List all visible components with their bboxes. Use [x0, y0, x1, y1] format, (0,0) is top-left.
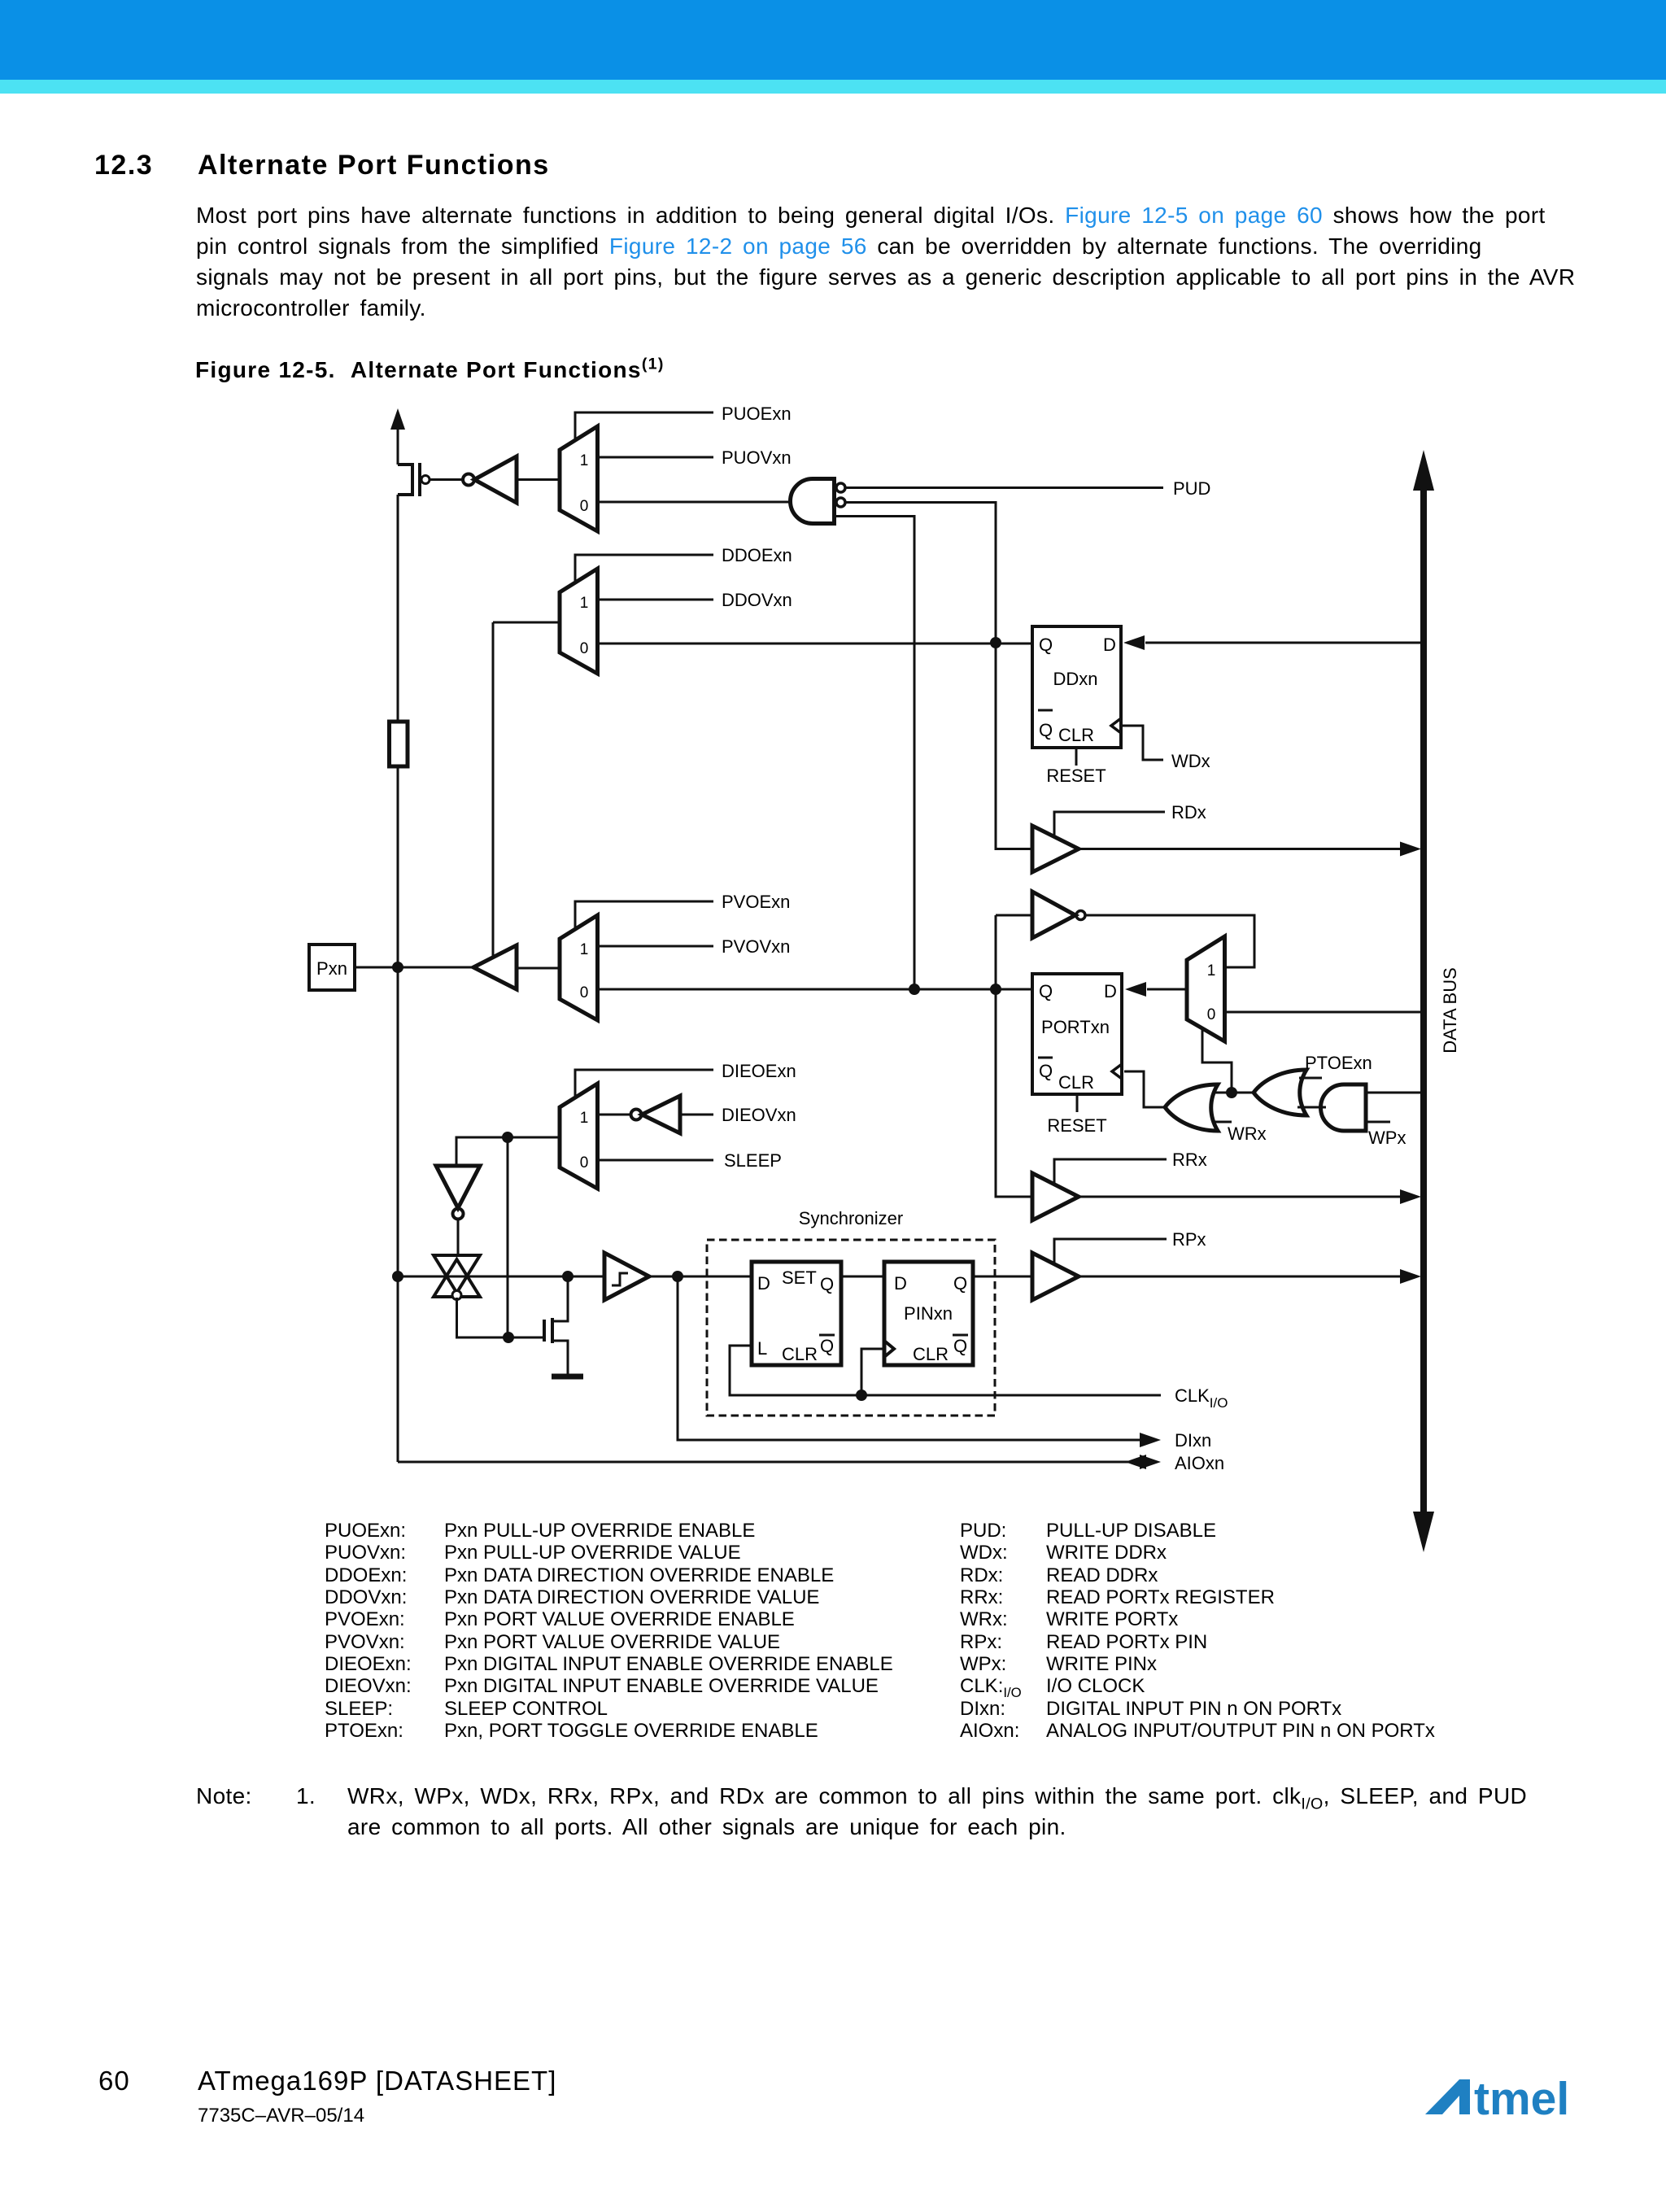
Pxn pad box [309, 945, 355, 990]
svg-text:DDOExn: DDOExn [722, 545, 792, 565]
svg-text:Q: Q [953, 1336, 967, 1356]
wire SLEEP input [598, 1159, 714, 1162]
wire toggle OR output [1232, 1092, 1254, 1094]
svg-text:DATA BUS: DATA BUS [1440, 967, 1460, 1054]
mux DIEOE [560, 1084, 598, 1189]
wire DIEOV input [680, 1114, 713, 1116]
svg-text:RESET: RESET [1046, 766, 1106, 786]
wire AND top input from bus [1366, 1092, 1421, 1094]
flip-flop DDxn [1032, 626, 1121, 748]
wire latch L input elbow [730, 1346, 1161, 1395]
inverter pull-up enable [463, 474, 474, 486]
svg-text:D: D [1103, 635, 1116, 655]
wire RRx label stub [1054, 1159, 1167, 1185]
mux DDOE [560, 569, 598, 674]
svg-text:WPx: WPx [1368, 1128, 1406, 1148]
wire PVOE select [575, 901, 713, 929]
svg-text:L: L [757, 1338, 767, 1359]
svg-text:0: 0 [580, 1154, 589, 1171]
wire DDxn reset stub [1075, 748, 1078, 766]
svg-text:WDx: WDx [1171, 751, 1210, 771]
gate OR write-port (WRx) [1165, 1084, 1218, 1131]
wire DDOE select [575, 555, 713, 582]
wire RPx label stub [1054, 1239, 1167, 1264]
legend right column [960, 1520, 1022, 1742]
arrow AIOxn double [1125, 1455, 1146, 1469]
node analog junction [392, 1271, 403, 1282]
svg-text:Q: Q [1039, 635, 1053, 655]
svg-text:DIEOVxn: DIEOVxn [722, 1105, 796, 1125]
svg-text:0: 0 [580, 984, 589, 1001]
wire PUOV input [598, 456, 714, 459]
node toggle select junction [1226, 1087, 1237, 1098]
wire DDOE output to driver enable [493, 622, 560, 624]
svg-text:1: 1 [1207, 962, 1216, 979]
wire resistor to pin line [397, 766, 399, 1462]
synchronizer dashed box [707, 1240, 995, 1416]
note [196, 1781, 252, 1812]
wire WDx to DDxn clock [1122, 726, 1163, 760]
buffer RDx [1032, 826, 1079, 872]
wire Pxn to driver [355, 966, 473, 969]
wire PUOE select [575, 412, 713, 440]
mux PVOE [560, 915, 598, 1020]
wire driver enable from DDOE mux [492, 622, 495, 957]
mux PORT toggle [1187, 936, 1225, 1041]
wire sleep inverter to bowtie [457, 1219, 460, 1255]
data bus [1420, 486, 1427, 1516]
wire VCC to PMOS [397, 428, 399, 465]
wire bowtie bubble to NMOS gate [457, 1298, 543, 1337]
svg-text:PVOVxn: PVOVxn [722, 936, 790, 957]
Atmel logo [1415, 2066, 1594, 2131]
wire clk to PINxn clock [861, 1349, 884, 1395]
wire toggle mux select [1202, 1028, 1232, 1093]
svg-text:WRx: WRx [1228, 1123, 1267, 1144]
gate OR toggle (PTOExn) [1254, 1070, 1306, 1115]
svg-text:Q: Q [1039, 720, 1053, 740]
svg-text:1: 1 [580, 595, 589, 612]
flip-flop PINxn [884, 1262, 973, 1365]
svg-text:DDOVxn: DDOVxn [722, 590, 792, 610]
svg-text:PORTxn: PORTxn [1041, 1017, 1110, 1037]
header cyan bar [0, 80, 1666, 94]
figure caption [195, 357, 665, 383]
svg-text:0: 0 [1207, 1006, 1216, 1023]
svg-text:RDx: RDx [1171, 802, 1206, 822]
wire PORTxn-Q to inverter [996, 914, 1032, 917]
svg-text:AIOxn: AIOxn [1175, 1453, 1224, 1473]
svg-text:PUOExn: PUOExn [722, 404, 792, 424]
svg-text:1: 1 [580, 941, 589, 958]
wire schmitt to synchronizer [649, 1276, 752, 1278]
wire OR top input [1213, 1092, 1232, 1094]
buffer RRx [1032, 1173, 1079, 1220]
wire PTOExn stub [1299, 1077, 1322, 1080]
paragraph [196, 200, 1575, 324]
inverter PORT toggle feedback [1032, 892, 1075, 938]
ground [552, 1374, 583, 1380]
section heading 12.3 [94, 150, 153, 181]
svg-text:PUD: PUD [1173, 478, 1210, 499]
svg-text:Q: Q [953, 1273, 967, 1294]
wire DDxn Q line [598, 643, 1033, 645]
wire analog line to schmitt [398, 1276, 604, 1278]
node schmitt input junction [562, 1271, 574, 1282]
node NMOS gate junction [503, 1332, 514, 1343]
svg-text:PUOVxn: PUOVxn [722, 447, 792, 468]
inverter DIEOV [631, 1110, 642, 1120]
wire PVOV input [598, 945, 714, 948]
svg-text:DIxn: DIxn [1175, 1430, 1211, 1451]
wire DIEOE output branch down [507, 1137, 509, 1337]
svg-text:PINxn: PINxn [904, 1303, 953, 1324]
svg-text:DDxn: DDxn [1053, 669, 1097, 689]
gate AND pull-up control [790, 479, 834, 524]
transistor NMOS input clamp [543, 1320, 546, 1342]
wire RRx output to bus [1079, 1196, 1400, 1198]
wire RPx output to bus [1079, 1276, 1400, 1278]
svg-text:Q: Q [1039, 1061, 1053, 1081]
wire toggle mux 0 input from bus [1225, 1011, 1422, 1014]
wire DDxn-Q to RDx buffer [996, 643, 1032, 849]
svg-text:CLR: CLR [1058, 1072, 1094, 1093]
wire PORTxn D input from toggle mux [1147, 988, 1187, 991]
wire PVOE mux to driver input [517, 967, 560, 970]
node pin junction [392, 962, 403, 973]
wire WRx stub [1212, 1121, 1232, 1123]
wire PUOE mux 0 input from AND [598, 501, 791, 504]
wire PMOS drain down [397, 495, 399, 722]
footer [98, 2066, 130, 2096]
node DIEOE output junction [502, 1132, 513, 1143]
svg-text:D: D [757, 1273, 770, 1294]
schmitt trigger buffer [604, 1253, 649, 1300]
wire PORTxn-Q vertical lower [996, 915, 1032, 1197]
svg-text:D: D [1104, 981, 1117, 1001]
node DDxn Q junction [990, 637, 1001, 648]
svg-text:CLR: CLR [782, 1344, 818, 1364]
wire AND to OR input [1297, 1106, 1326, 1109]
wire DDOV input [598, 599, 714, 601]
wire PORTxn reset stub [1076, 1094, 1079, 1112]
VCC arrow [390, 408, 405, 430]
svg-text:CLR: CLR [913, 1344, 949, 1364]
wire AIOxn line [398, 1461, 1132, 1464]
legend left column [325, 1520, 412, 1742]
svg-text:RPx: RPx [1172, 1229, 1206, 1250]
arrow DIxn [1140, 1433, 1161, 1447]
wire DIxn tap [678, 1276, 1140, 1440]
svg-text:1: 1 [580, 452, 589, 469]
svg-text:Q: Q [1039, 981, 1053, 1001]
node PORTxn Q junction right [990, 984, 1001, 995]
wire WPx stub [1366, 1121, 1390, 1123]
flip-flop PORTxn [1032, 974, 1122, 1094]
svg-text:1: 1 [580, 1110, 589, 1127]
wire PORTxn Q line [598, 988, 1033, 991]
header blue bar [0, 0, 1666, 80]
wire PMOS gate to inverter [430, 478, 463, 481]
svg-text:RRx: RRx [1172, 1150, 1207, 1170]
wire DIEOE output [456, 1137, 560, 1166]
wire D input from bus [1145, 642, 1421, 644]
svg-text:Q: Q [820, 1336, 834, 1356]
wire RDx label stub [1054, 812, 1165, 838]
gate AND write-pin (WPx) [1321, 1084, 1367, 1131]
transistor PMOS pull-up [398, 465, 412, 495]
wire DIEOE 1 input from inverter [598, 1114, 631, 1116]
node digital input junction [672, 1271, 683, 1282]
svg-text:CLR: CLR [1058, 725, 1094, 745]
svg-text:0: 0 [580, 640, 589, 657]
wire PINxn Q to RPx buffer [973, 1276, 1032, 1278]
wire inverter to PUOE mux [517, 478, 560, 481]
wire PORTxn-Q to AND input [835, 517, 915, 990]
node PORTxn Q junction left [909, 984, 920, 995]
svg-text:0: 0 [580, 498, 589, 515]
svg-text:RESET: RESET [1047, 1115, 1106, 1136]
buffer RPx [1032, 1253, 1079, 1300]
wire inverter output to toggle mux [1085, 915, 1254, 967]
node clk junction [856, 1390, 867, 1401]
svg-text:PTOExn: PTOExn [1305, 1053, 1372, 1073]
svg-text:Pxn: Pxn [316, 958, 347, 979]
wire RDx output to bus [1079, 848, 1400, 850]
wire DIEOE select [575, 1070, 713, 1097]
inverter sleep (down) [436, 1166, 480, 1208]
svg-text:Q: Q [820, 1274, 834, 1294]
wire DDxn-Q to AND bubble [845, 503, 996, 644]
latch D set/clr [752, 1262, 841, 1365]
svg-text:SLEEP: SLEEP [724, 1150, 782, 1171]
svg-text:D: D [894, 1273, 907, 1294]
wire OR output to PORTxn clock [1124, 1071, 1165, 1107]
svg-text:Synchronizer: Synchronizer [799, 1208, 903, 1228]
svg-text:CLKI/O: CLKI/O [1175, 1385, 1228, 1411]
transmission gate bowtie [434, 1255, 480, 1293]
svg-text:DIEOExn: DIEOExn [722, 1061, 796, 1081]
svg-text:PVOExn: PVOExn [722, 892, 790, 912]
wire PUD [845, 486, 1163, 489]
svg-text:SET: SET [782, 1267, 817, 1288]
wire latch Q to PINxn D [841, 1276, 884, 1278]
mux PUOE [560, 426, 598, 531]
output driver buffer [473, 945, 517, 989]
resistor pull-up [390, 722, 408, 766]
